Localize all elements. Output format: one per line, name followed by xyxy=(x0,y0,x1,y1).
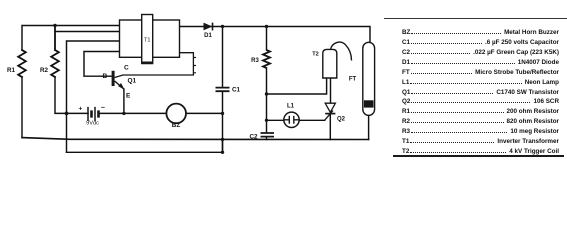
transistor Q1 base bar xyxy=(112,71,115,86)
transformer T1 body xyxy=(120,20,180,57)
node emitter xyxy=(122,112,125,115)
node C1 bottom xyxy=(221,112,224,115)
parts list bottom rule xyxy=(393,155,564,157)
svg-text:Q2: Q2 xyxy=(337,116,346,122)
svg-text:C: C xyxy=(124,64,129,71)
svg-text:D1: D1 xyxy=(204,33,212,39)
wire top rail right xyxy=(180,27,371,43)
svg-text:9Vdc: 9Vdc xyxy=(86,121,99,127)
wire battery left xyxy=(67,112,89,114)
wire L1 left xyxy=(267,119,285,121)
wire R3 vertical xyxy=(266,27,268,140)
neon lamp L1 xyxy=(284,112,299,127)
node battery plus xyxy=(65,112,69,116)
parts list xyxy=(402,29,559,158)
node rail C1 xyxy=(221,138,224,141)
wire emitter down xyxy=(123,89,125,113)
diode D1 xyxy=(204,23,213,31)
wire T1 pin3 to base xyxy=(84,52,120,77)
svg-text:E: E xyxy=(126,93,131,100)
wire FT bottom xyxy=(368,115,370,139)
svg-text:Q1: Q1 xyxy=(128,77,137,84)
svg-text:R1: R1 xyxy=(7,67,16,74)
svg-text:BZ: BZ xyxy=(172,122,181,129)
wire R1 bottom xyxy=(21,77,23,138)
svg-text:R3: R3 xyxy=(251,58,259,64)
node R2 top xyxy=(53,24,56,27)
parts list top rule xyxy=(384,18,567,19)
wire T1 tap xyxy=(55,31,120,33)
node C1 top xyxy=(221,25,224,28)
resistor R1 xyxy=(18,50,26,77)
node L1 xyxy=(265,119,268,122)
buzzer BZ xyxy=(166,104,186,124)
wire buzzer to C1 xyxy=(186,112,223,114)
wire T1 pin2 xyxy=(67,41,120,152)
junction dots xyxy=(53,24,268,154)
resistor R2 xyxy=(51,26,59,78)
node lower return xyxy=(221,151,224,154)
wire T2 secondary arc xyxy=(331,42,352,60)
schematic drawing xyxy=(0,0,567,168)
svg-text:+: + xyxy=(79,106,83,113)
transformer T1 core xyxy=(142,15,153,64)
wire C1 vertical xyxy=(222,27,224,153)
svg-text:L1: L1 xyxy=(287,104,295,110)
transistor Q1 emitter xyxy=(115,81,124,89)
node R3 top xyxy=(265,25,268,28)
flash tube FT xyxy=(363,42,375,115)
svg-text:–: – xyxy=(101,105,105,112)
wire top rail left xyxy=(22,26,120,51)
SCR Q2 xyxy=(325,103,335,112)
wire collector hook and T1 right tab xyxy=(115,53,194,78)
svg-text:C1: C1 xyxy=(232,87,241,94)
svg-text:T1: T1 xyxy=(144,38,151,44)
svg-text:T2: T2 xyxy=(312,52,319,58)
wire R2 bottom xyxy=(55,77,67,113)
pin stubs T1 tab xyxy=(193,58,196,73)
node T2 primary xyxy=(265,92,268,95)
wire T2 primary left xyxy=(267,78,327,94)
resistor R3 xyxy=(263,50,270,68)
battery B1 plates xyxy=(88,107,95,121)
wire SCR anode xyxy=(330,78,332,103)
svg-text:C2: C2 xyxy=(249,134,258,141)
wire lower return xyxy=(67,140,223,153)
wire L1 to gate xyxy=(299,119,325,121)
svg-text:FT: FT xyxy=(349,77,357,83)
capacitor C2 xyxy=(261,133,275,137)
capacitor C1 xyxy=(216,88,230,92)
wire SCR cathode down xyxy=(329,114,331,140)
trigger transformer T2 xyxy=(323,49,337,78)
svg-text:B: B xyxy=(103,73,108,80)
svg-text:R2: R2 xyxy=(40,67,49,74)
wire battery right xyxy=(99,112,167,114)
wire bottom rail xyxy=(22,138,369,140)
